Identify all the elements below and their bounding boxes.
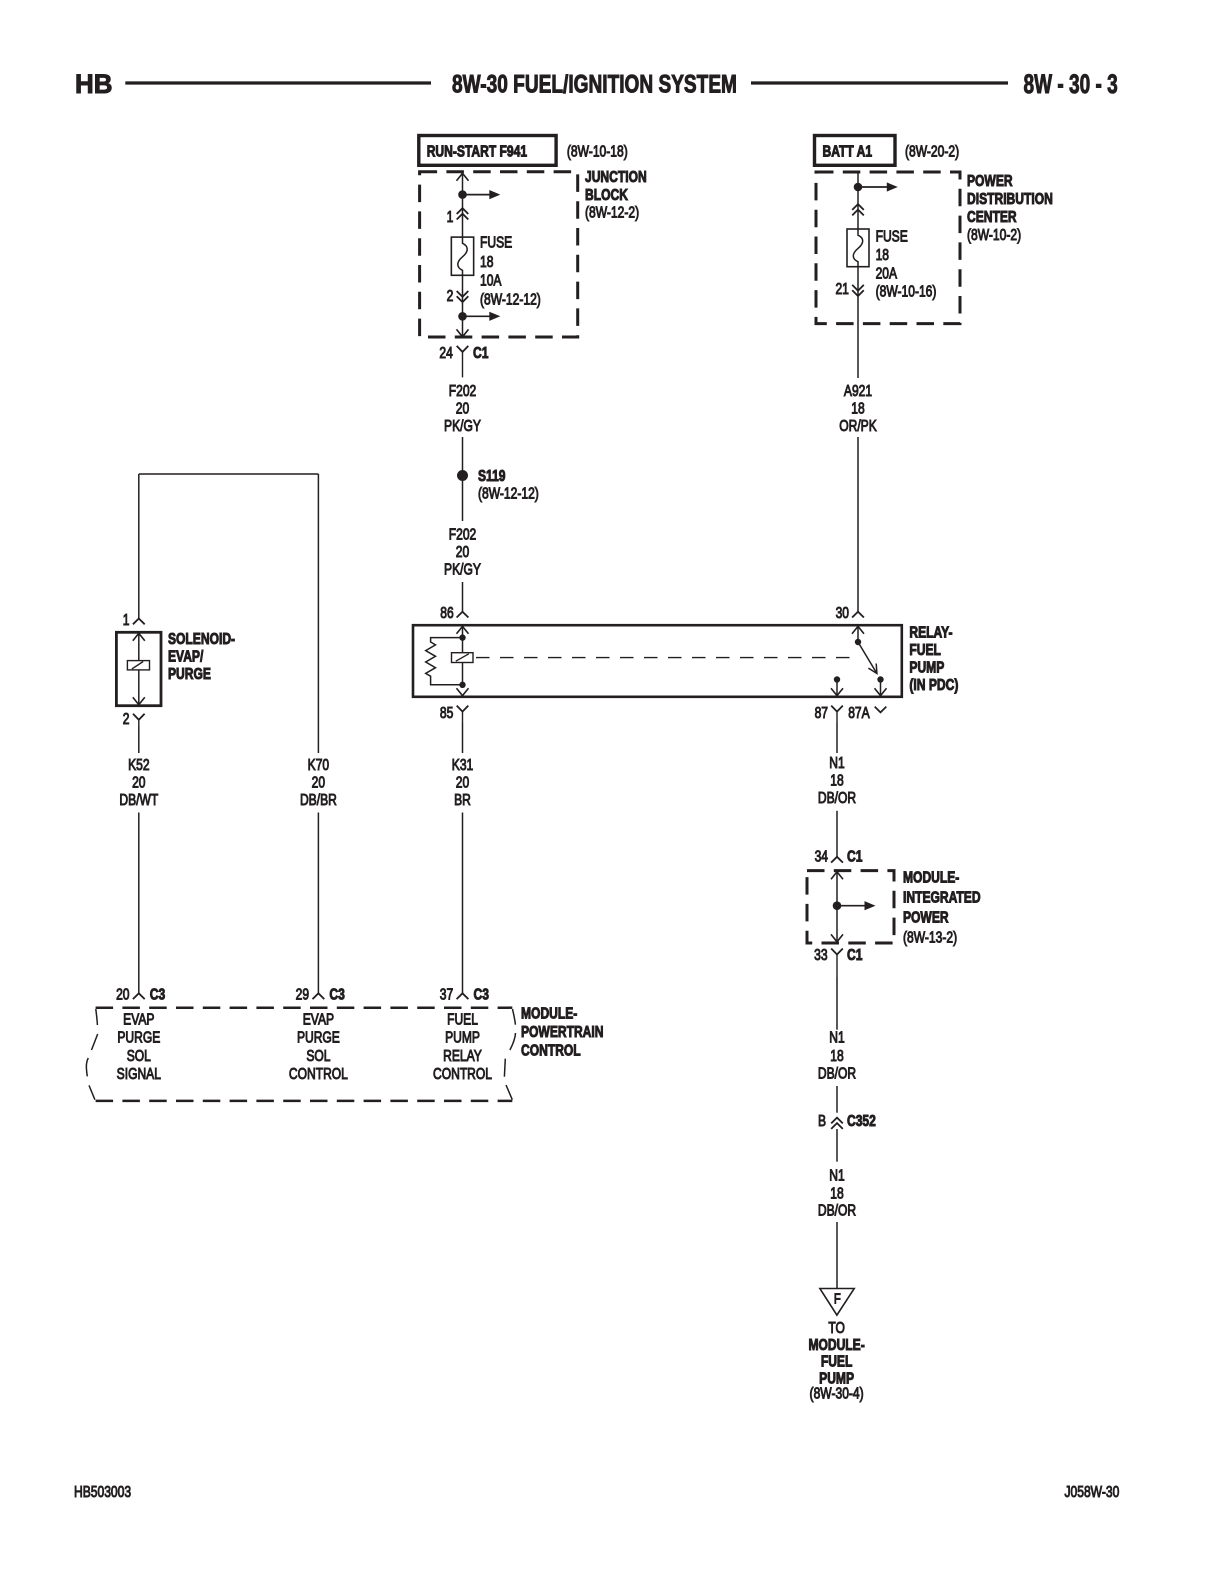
- relay switch blade: [858, 642, 877, 674]
- svg-text:A921: A921: [844, 382, 872, 400]
- svg-text:SOL: SOL: [127, 1046, 151, 1064]
- svg-text:DB/OR: DB/OR: [818, 789, 856, 807]
- junction node in junction block top: [458, 190, 467, 199]
- svg-text:EVAP/: EVAP/: [168, 647, 203, 665]
- svg-text:24: 24: [439, 344, 453, 362]
- svg-text:BLOCK: BLOCK: [585, 185, 628, 203]
- svg-text:POWER: POWER: [967, 172, 1013, 190]
- solenoid internal arrow in: [133, 633, 145, 640]
- wire F202 to splice: [462, 437, 464, 471]
- svg-text:FUSE: FUSE: [876, 227, 908, 245]
- junction node PDC: [854, 183, 863, 192]
- svg-text:(8W-10-16): (8W-10-16): [876, 282, 937, 300]
- svg-text:PURGE: PURGE: [297, 1028, 340, 1046]
- svg-text:CONTROL: CONTROL: [289, 1065, 348, 1083]
- svg-text:SOLENOID-: SOLENOID-: [168, 630, 235, 648]
- wire N1 to off-page connector: [836, 1222, 838, 1289]
- svg-text:30: 30: [836, 604, 850, 622]
- wire F202 below splice: [462, 481, 464, 521]
- wire K52 upper segment: [138, 726, 140, 753]
- svg-text:1: 1: [447, 208, 454, 226]
- svg-text:RELAY: RELAY: [443, 1046, 482, 1064]
- svg-text:20: 20: [456, 773, 470, 791]
- svg-text:PURGE: PURGE: [168, 665, 211, 683]
- svg-text:JUNCTION: JUNCTION: [585, 168, 647, 186]
- svg-text:(8W-20-2): (8W-20-2): [905, 142, 959, 160]
- svg-text:(IN PDC): (IN PDC): [909, 676, 958, 694]
- svg-text:DB/OR: DB/OR: [818, 1201, 856, 1219]
- arrow exit junction block: [457, 329, 469, 336]
- wire from RUN-START F941 through junction block: [462, 173, 464, 237]
- svg-text:BATT A1: BATT A1: [823, 142, 873, 160]
- PCM module torn right edge: [504, 1009, 515, 1100]
- svg-text:J058W-30: J058W-30: [1065, 1483, 1120, 1501]
- svg-text:8W - 30 - 3: 8W - 30 - 3: [1023, 69, 1117, 99]
- svg-text:HB: HB: [75, 69, 112, 100]
- svg-text:RELAY-: RELAY-: [909, 623, 952, 641]
- svg-text:(8W-12-12): (8W-12-12): [480, 290, 541, 308]
- svg-text:(8W-10-2): (8W-10-2): [967, 226, 1021, 244]
- svg-text:C1: C1: [473, 344, 489, 362]
- svg-text:K70: K70: [308, 756, 330, 774]
- module integrated power dashed outline: [807, 871, 894, 943]
- relay coil resistor winding: [426, 638, 463, 685]
- wire N1 to pin 34: [836, 811, 838, 857]
- fuse 18 20A in PDC: [847, 229, 869, 267]
- wire A921 to relay pin 30: [857, 437, 859, 612]
- svg-text:C1: C1: [847, 946, 863, 964]
- PCM module dashed outline top: [96, 1006, 513, 1009]
- svg-text:MODULE-: MODULE-: [808, 1336, 865, 1354]
- svg-text:2: 2: [447, 286, 454, 304]
- svg-text:20: 20: [456, 399, 470, 417]
- branch arrow PDC: [858, 186, 889, 188]
- relay switch common entry arrow: [852, 626, 864, 633]
- svg-text:FUEL: FUEL: [447, 1010, 478, 1028]
- splice S119: [457, 470, 468, 481]
- svg-text:C3: C3: [474, 985, 490, 1003]
- branch arrow junction block bottom: [463, 315, 492, 317]
- relay coil top node: [459, 634, 465, 640]
- svg-text:EVAP: EVAP: [123, 1010, 154, 1028]
- wire K31 lower segment: [462, 813, 464, 994]
- svg-text:PK/GY: PK/GY: [444, 560, 481, 578]
- svg-text:2: 2: [123, 710, 130, 728]
- svg-text:C3: C3: [150, 985, 166, 1003]
- svg-text:10A: 10A: [480, 271, 502, 289]
- svg-text:DB/WT: DB/WT: [119, 791, 158, 809]
- svg-text:HB503003: HB503003: [74, 1483, 131, 1501]
- svg-text:18: 18: [830, 1184, 844, 1202]
- svg-text:POWER: POWER: [903, 908, 949, 926]
- svg-text:85: 85: [440, 704, 454, 722]
- solenoid box EVAP/PURGE: [116, 632, 161, 705]
- wire below fuse in junction block: [462, 275, 464, 337]
- relay armature symbol: [452, 653, 474, 663]
- wire N1 below MIP: [836, 977, 838, 1030]
- svg-text:DISTRIBUTION: DISTRIBUTION: [967, 190, 1053, 208]
- svg-text:8W-30 FUEL/IGNITION SYSTEM: 8W-30 FUEL/IGNITION SYSTEM: [452, 70, 737, 98]
- connector box BATT A1: [815, 136, 896, 166]
- svg-text:1: 1: [123, 611, 130, 629]
- svg-text:N1: N1: [829, 1166, 845, 1184]
- svg-text:33: 33: [814, 946, 828, 964]
- svg-text:PURGE: PURGE: [117, 1028, 160, 1046]
- svg-text:37: 37: [440, 985, 454, 1003]
- svg-text:DB/BR: DB/BR: [300, 791, 337, 809]
- wire N1 below C352: [836, 1129, 838, 1162]
- svg-text:MODULE-: MODULE-: [903, 868, 960, 886]
- svg-text:K52: K52: [128, 756, 150, 774]
- wire F202 to relay pin 86: [462, 582, 464, 612]
- header rule right: [751, 81, 1008, 84]
- wire N1 from relay pin 87: [836, 723, 838, 753]
- branch arrow junction block top: [463, 194, 492, 196]
- svg-text:N1: N1: [829, 1028, 845, 1046]
- svg-text:FUEL: FUEL: [821, 1352, 853, 1370]
- svg-text:87A: 87A: [848, 704, 870, 722]
- svg-text:N1: N1: [829, 754, 845, 772]
- svg-text:MODULE-: MODULE-: [521, 1004, 578, 1022]
- relay coil exit arrow to pin 85: [457, 688, 469, 695]
- power distribution center dashed outline: [816, 172, 960, 324]
- svg-text:C352: C352: [847, 1112, 876, 1130]
- svg-text:(8W-10-18): (8W-10-18): [567, 142, 628, 160]
- svg-text:18: 18: [830, 1047, 844, 1065]
- svg-text:BR: BR: [454, 791, 471, 809]
- off-page connector F: [820, 1289, 854, 1316]
- wire K70 upper segment: [317, 474, 319, 753]
- wire solenoid feed: [138, 474, 140, 619]
- svg-text:18: 18: [851, 399, 865, 417]
- svg-text:K31: K31: [452, 756, 474, 774]
- svg-text:OR/PK: OR/PK: [839, 417, 877, 435]
- svg-text:20: 20: [312, 773, 326, 791]
- svg-text:(8W-13-2): (8W-13-2): [903, 928, 957, 946]
- fuse 18 10A in junction block: [451, 237, 473, 275]
- svg-text:(8W-12-2): (8W-12-2): [585, 203, 639, 221]
- relay box outline: [413, 625, 902, 697]
- svg-text:18: 18: [480, 252, 494, 270]
- svg-text:F: F: [834, 1290, 841, 1307]
- svg-text:20: 20: [132, 773, 146, 791]
- solenoid internal arrow out: [138, 670, 140, 705]
- svg-text:(8W-12-12): (8W-12-12): [478, 484, 539, 502]
- svg-text:34: 34: [815, 847, 829, 865]
- svg-text:SOL: SOL: [306, 1046, 330, 1064]
- wire N1 to C352: [836, 1086, 838, 1113]
- svg-text:PUMP: PUMP: [909, 658, 944, 676]
- svg-text:C3: C3: [329, 985, 345, 1003]
- wire below fuse PDC: [857, 267, 859, 378]
- svg-text:F202: F202: [449, 525, 477, 543]
- svg-text:SIGNAL: SIGNAL: [117, 1065, 162, 1083]
- svg-text:86: 86: [440, 604, 454, 622]
- svg-text:CENTER: CENTER: [967, 208, 1017, 226]
- svg-text:B: B: [818, 1112, 826, 1130]
- PCM module dashed outline bottom: [96, 1100, 513, 1103]
- svg-text:PUMP: PUMP: [445, 1028, 480, 1046]
- relay coil wire entry arrow: [457, 626, 469, 633]
- svg-text:20A: 20A: [876, 264, 898, 282]
- svg-text:INTEGRATED: INTEGRATED: [903, 888, 981, 906]
- svg-text:21: 21: [835, 280, 849, 298]
- svg-text:29: 29: [296, 985, 310, 1003]
- svg-text:20: 20: [456, 543, 470, 561]
- MIP branch arrow: [837, 905, 867, 907]
- svg-text:CONTROL: CONTROL: [433, 1065, 492, 1083]
- svg-text:TO: TO: [828, 1318, 845, 1336]
- wire K70 lower segment: [317, 813, 319, 994]
- wire jumper solenoid to K70: [139, 473, 319, 475]
- svg-text:18: 18: [876, 246, 890, 264]
- svg-text:87: 87: [815, 704, 829, 722]
- svg-text:DB/OR: DB/OR: [818, 1064, 856, 1082]
- junction node junction block bottom: [458, 312, 467, 321]
- relay switch common node: [855, 639, 861, 645]
- svg-text:FUEL: FUEL: [909, 641, 941, 659]
- svg-text:S119: S119: [478, 467, 506, 485]
- svg-text:C1: C1: [847, 847, 863, 865]
- junction block dashed outline: [420, 172, 578, 337]
- PCM module torn left edge: [86, 1009, 97, 1100]
- svg-text:20: 20: [116, 985, 130, 1003]
- relay 87 exit arrow: [836, 680, 838, 696]
- MIP junction node: [833, 901, 842, 910]
- svg-text:(8W-30-4): (8W-30-4): [810, 1384, 864, 1402]
- wire K31 upper segment: [462, 723, 464, 753]
- wire K52 lower segment: [138, 813, 140, 994]
- MIP internal wire: [831, 872, 843, 879]
- svg-text:PK/GY: PK/GY: [444, 417, 481, 435]
- relay coil bottom node: [459, 682, 465, 688]
- svg-text:EVAP: EVAP: [303, 1010, 334, 1028]
- svg-text:F202: F202: [449, 382, 477, 400]
- solenoid coil symbol: [127, 661, 149, 670]
- svg-text:18: 18: [830, 771, 844, 789]
- connector box RUN-START F941: [419, 136, 556, 166]
- svg-text:CONTROL: CONTROL: [521, 1041, 581, 1059]
- chevrons PDC wire: [852, 204, 864, 210]
- svg-text:POWERTRAIN: POWERTRAIN: [521, 1023, 603, 1041]
- svg-text:FUSE: FUSE: [480, 233, 512, 251]
- header rule left: [125, 81, 431, 84]
- wire from BATT A1 in PDC: [857, 172, 859, 229]
- relay control dashed line: [476, 657, 851, 659]
- svg-text:RUN-START F941: RUN-START F941: [427, 142, 528, 160]
- relay 87A exit arrow: [880, 680, 882, 696]
- relay contact node 87A: [877, 676, 883, 682]
- relay contact node 87: [834, 676, 840, 682]
